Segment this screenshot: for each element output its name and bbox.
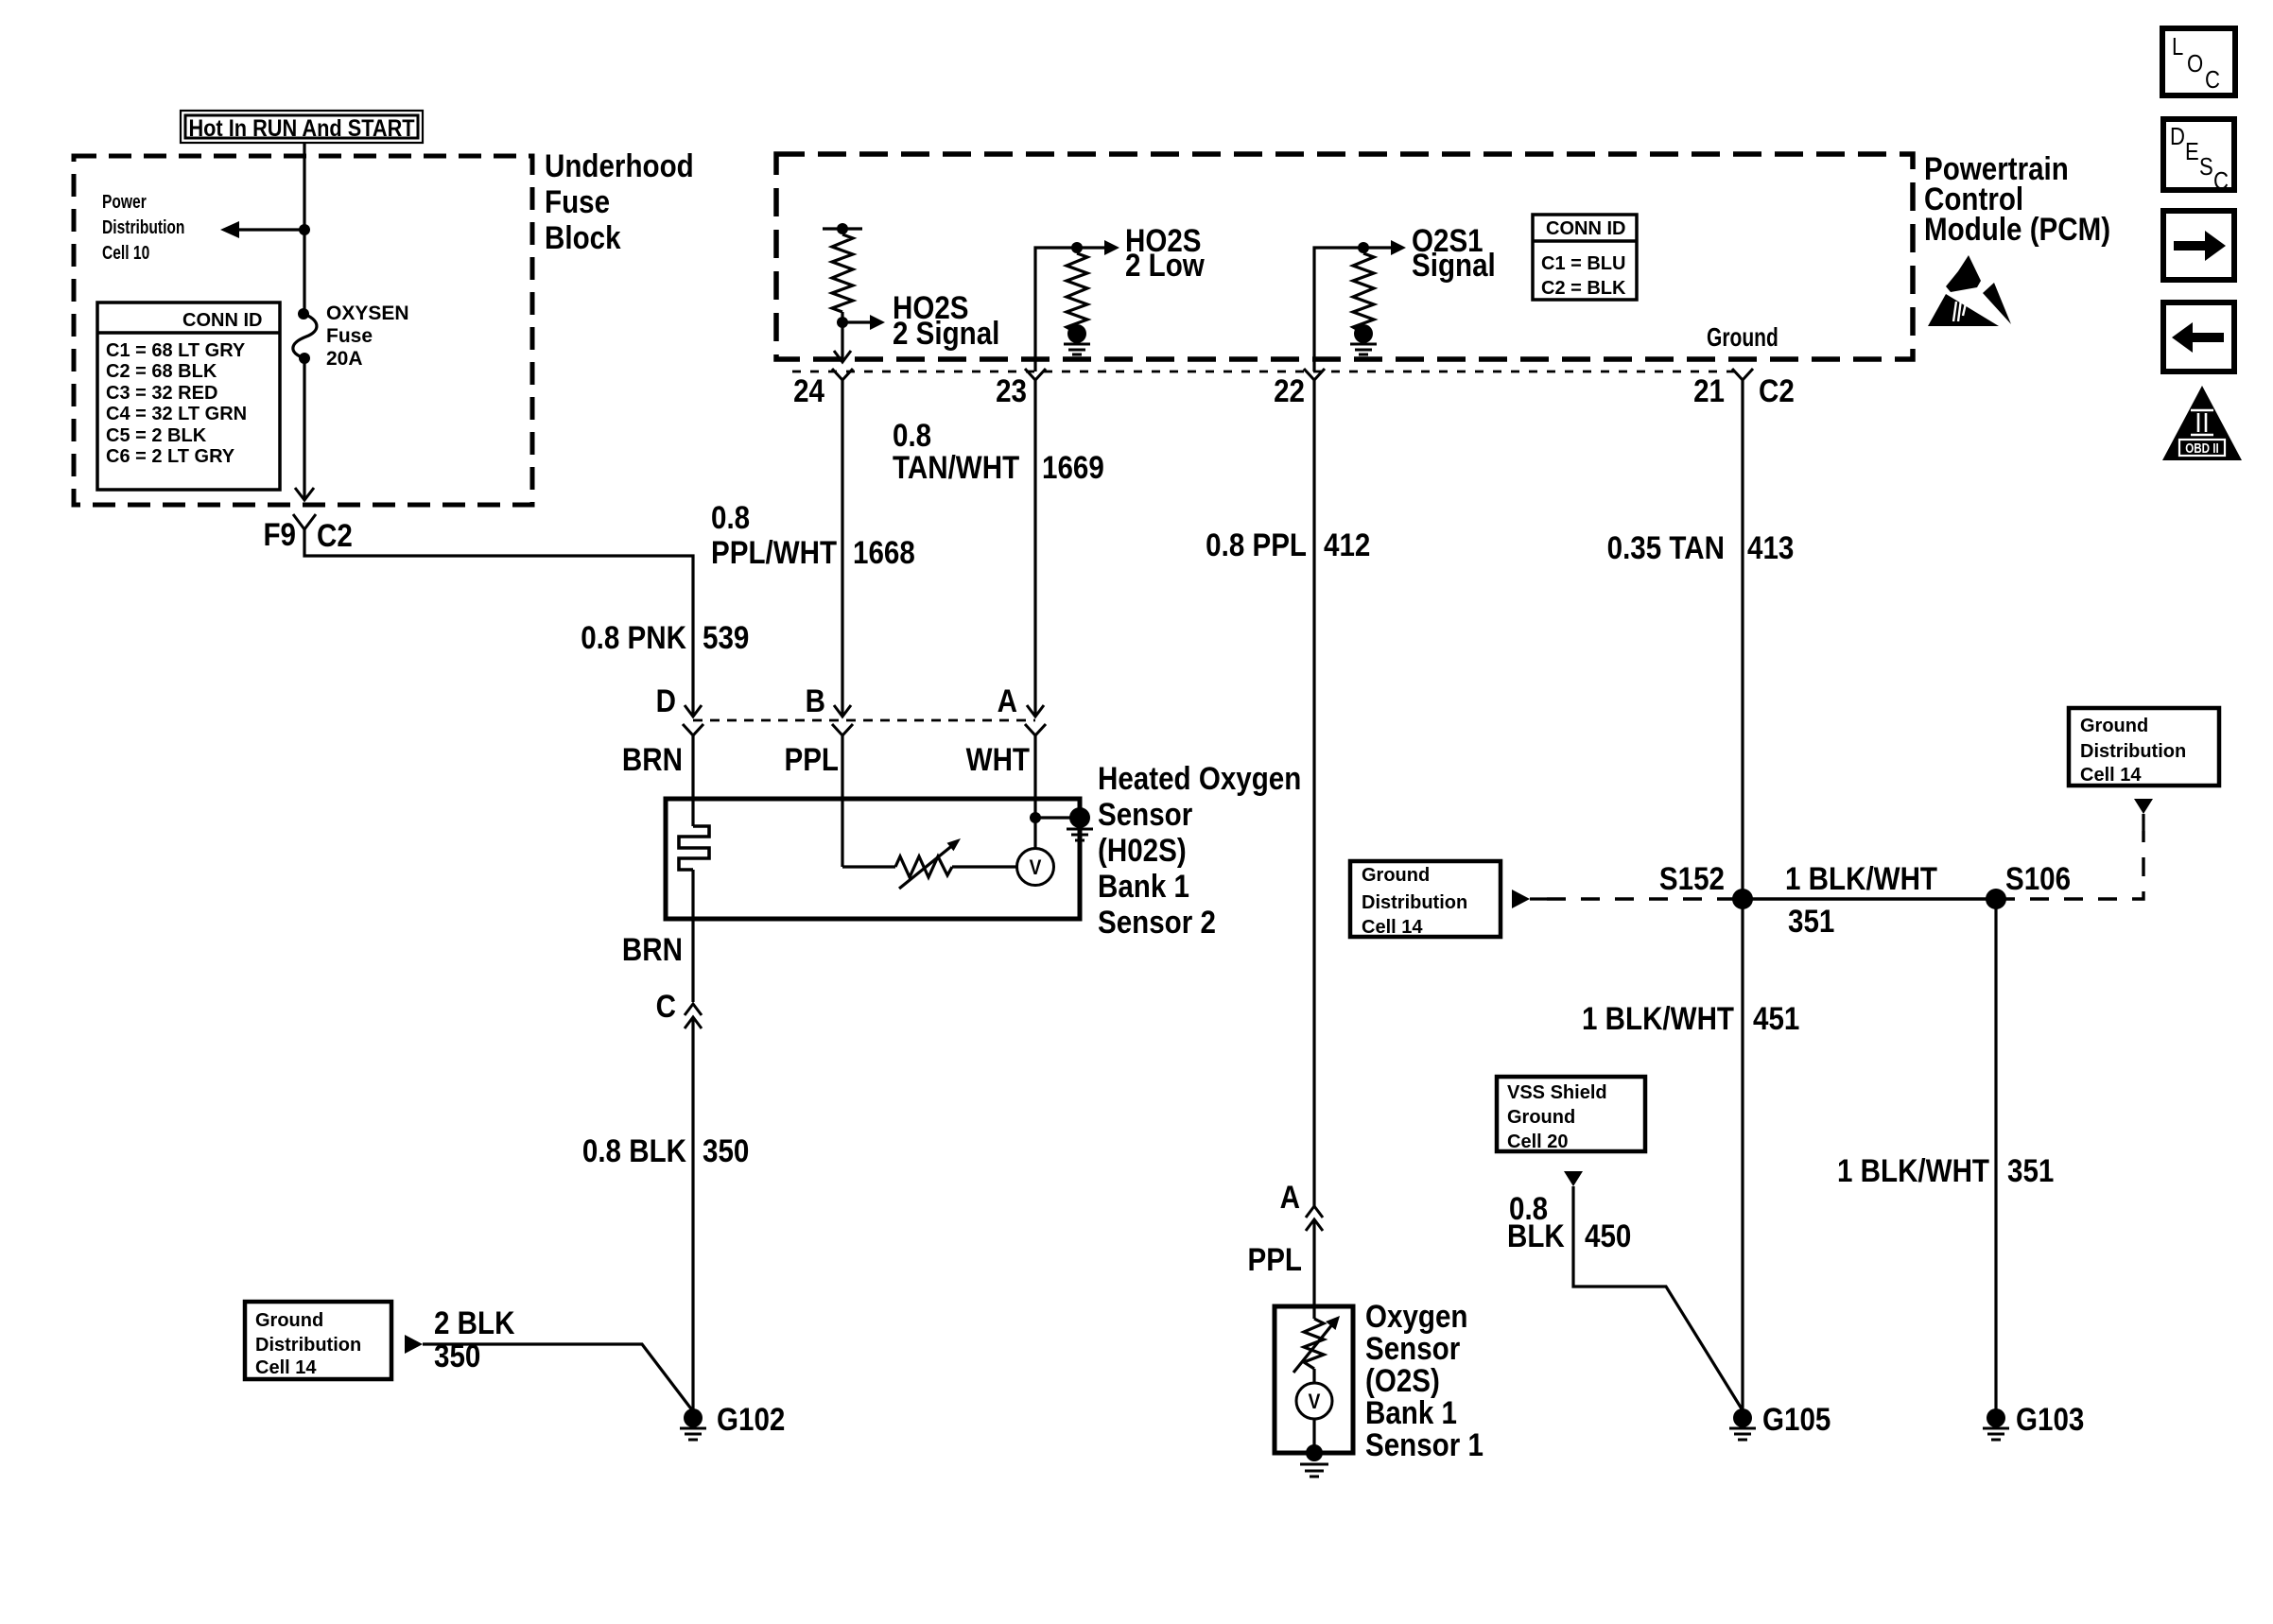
arrow to wire (top right)	[2134, 799, 2153, 814]
VSS shield ground box	[1497, 1077, 1645, 1152]
wire pin 22 to O2S (0.8 PPL 412)	[1312, 379, 1315, 1206]
ground (PCM internal, pin 22 resistor)	[1350, 324, 1377, 354]
svg-text:Distribution: Distribution	[102, 216, 184, 237]
resistor HO2S 2 Low (pin 23)	[1035, 222, 1205, 371]
wire S106 to G103 (1 BLK/WHT 351)	[1994, 899, 1997, 1410]
svg-text:G102: G102	[717, 1401, 785, 1437]
svg-text:1 BLK/WHT: 1 BLK/WHT	[1785, 860, 1937, 896]
svg-text:Sensor 1: Sensor 1	[1365, 1426, 1484, 1462]
voltmeter V (O2S)	[1296, 1369, 1332, 1453]
svg-text:G103: G103	[2016, 1401, 2084, 1437]
svg-text:CONN ID: CONN ID	[1546, 218, 1625, 239]
wire from Hot In RUN And START down through fuse block	[303, 143, 305, 312]
svg-text:Ground: Ground	[1362, 865, 1430, 886]
svg-text:O: O	[2187, 50, 2203, 78]
svg-text:Ground: Ground	[255, 1310, 323, 1331]
svg-text:Ground: Ground	[2080, 716, 2148, 736]
svg-text:(H02S): (H02S)	[1098, 832, 1187, 868]
ground distribution box (middle)	[1350, 861, 1501, 938]
svg-text:412: 412	[1324, 527, 1370, 562]
icon DESC	[2163, 119, 2234, 195]
variable resistor (O2S)	[1293, 1316, 1340, 1373]
label Heated Oxygen Sensor (H02S) Bank 1 Sensor 2	[1098, 760, 1301, 940]
wire VSS shield to G105 (0.8 BLK 450)	[1573, 1186, 1743, 1410]
svg-text:0.8 BLK: 0.8 BLK	[582, 1132, 686, 1168]
svg-text:413: 413	[1747, 529, 1794, 565]
svg-text:A: A	[1280, 1179, 1300, 1215]
resistor HO2S 2 Signal (pin 24)	[823, 223, 999, 351]
svg-text:Distribution: Distribution	[2080, 741, 2186, 762]
svg-text:PPL: PPL	[784, 741, 839, 777]
svg-text:450: 450	[1585, 1218, 1631, 1253]
svg-text:2 Signal: 2 Signal	[893, 315, 999, 351]
powertrain control module dashed box	[776, 154, 1913, 359]
voltmeter V (HO2S)	[1017, 849, 1054, 886]
svg-text:C2: C2	[317, 517, 353, 553]
arrow from ground distribution (middle)	[1512, 890, 1530, 908]
svg-text:Sensor: Sensor	[1098, 796, 1192, 832]
svg-text:Ground: Ground	[1707, 323, 1778, 353]
wire dashed to S152	[1530, 897, 1547, 900]
svg-text:A: A	[998, 682, 1017, 718]
svg-text:Module (PCM): Module (PCM)	[1924, 211, 2110, 247]
svg-text:BRN: BRN	[622, 741, 683, 777]
svg-text:D: D	[656, 682, 676, 718]
svg-text:PPL/WHT: PPL/WHT	[711, 534, 838, 570]
svg-text:C1 = 68 LT GRY: C1 = 68 LT GRY	[106, 340, 246, 361]
ground (HO2S case)	[1067, 807, 1093, 840]
svg-text:V: V	[1309, 1391, 1321, 1414]
svg-text:E: E	[2185, 138, 2199, 165]
wire S152 to S106 (1 BLK/WHT 351)	[1743, 897, 1996, 900]
svg-text:D: D	[2170, 123, 2185, 150]
wire B into HO2S	[841, 735, 843, 867]
svg-text:S: S	[2199, 153, 2213, 181]
svg-text:BRN: BRN	[622, 931, 683, 967]
svg-text:0.8: 0.8	[893, 417, 931, 453]
svg-text:350: 350	[703, 1132, 749, 1168]
ground G105	[1729, 1408, 1756, 1440]
wire D to HO2S heater	[691, 735, 694, 826]
svg-text:S152: S152	[1659, 860, 1725, 896]
svg-text:539: 539	[703, 619, 749, 655]
connector table CONN ID (PCM)	[1533, 215, 1637, 300]
wire dashed S106 to ground distribution (top right)	[1996, 831, 2143, 899]
svg-text:0.35 TAN: 0.35 TAN	[1607, 529, 1725, 565]
svg-text:Cell 10: Cell 10	[102, 242, 149, 263]
wire S152 to G105 (1 BLK/WHT 451)	[1741, 899, 1744, 1410]
node S106	[1986, 889, 2006, 909]
svg-text:350: 350	[434, 1338, 480, 1373]
connector pin 23	[1025, 369, 1046, 402]
svg-text:(O2S): (O2S)	[1365, 1362, 1440, 1398]
arrow chevron pin 24	[834, 351, 851, 362]
ESD symbol	[1928, 255, 2011, 326]
component box Heated Oxygen Sensor	[666, 799, 1080, 919]
svg-text:VSS Shield: VSS Shield	[1507, 1082, 1607, 1103]
ground (O2S case)	[1300, 1444, 1328, 1477]
arrow to power distribution	[220, 221, 239, 238]
wire A connector to O2S box	[1312, 1219, 1315, 1319]
node junction power distribution	[299, 224, 310, 235]
svg-text:0.8: 0.8	[711, 499, 750, 535]
arrow from VSS shield ground	[1564, 1171, 1583, 1186]
wire power distribution branch	[234, 228, 304, 231]
svg-text:Cell 14: Cell 14	[1362, 917, 1423, 938]
connector A (in-line, O2S)	[1306, 1206, 1323, 1231]
svg-text:Hot In RUN And START: Hot In RUN And START	[188, 115, 415, 142]
wire pin 24 inside PCM	[841, 322, 843, 360]
svg-text:Heated Oxygen: Heated Oxygen	[1098, 760, 1301, 796]
svg-text:Ground: Ground	[1507, 1107, 1575, 1128]
connector pin A	[1025, 705, 1046, 735]
variable resistor (HO2S heater sense)	[895, 838, 1017, 889]
wire pin 23 to A (0.8 TAN/WHT 1669)	[1033, 379, 1036, 716]
svg-text:2 BLK: 2 BLK	[434, 1304, 514, 1340]
svg-text:451: 451	[1753, 1000, 1799, 1036]
svg-text:1 BLK/WHT: 1 BLK/WHT	[1837, 1152, 1989, 1188]
heater element (HO2S)	[679, 826, 709, 870]
ground G102	[680, 1408, 706, 1440]
connector table CONN ID (fuse block)	[97, 302, 280, 490]
connector line C2 (thin dashed)	[792, 371, 1743, 373]
svg-text:Fuse: Fuse	[545, 183, 610, 219]
ground (PCM internal, pin 23 resistor)	[1064, 324, 1090, 354]
connector C (in-line)	[685, 1004, 702, 1028]
svg-text:22: 22	[1274, 372, 1305, 408]
svg-text:Fuse: Fuse	[326, 325, 373, 347]
svg-text:Sensor 2: Sensor 2	[1098, 904, 1216, 940]
component box Oxygen Sensor	[1275, 1306, 1353, 1453]
svg-text:23: 23	[996, 372, 1027, 408]
wire pin 21 to S152 (0.35 TAN 413)	[1741, 379, 1744, 899]
wire pin 24 to B (0.8 PPL/WHT 1668)	[841, 379, 843, 716]
label Powertrain Control Module (PCM)	[1924, 150, 2110, 247]
wire F9 to D pin (0.8 PNK 539)	[304, 529, 693, 716]
wire B to variable resistor	[842, 865, 895, 868]
icon OBD II triangle	[2162, 386, 2242, 460]
wire C to G102 (0.8 BLK 350)	[691, 1017, 694, 1410]
icon left arrow	[2163, 302, 2234, 371]
connector pin 21	[1732, 369, 1753, 402]
svg-text:Distribution: Distribution	[255, 1335, 361, 1356]
svg-text:Cell 20: Cell 20	[1507, 1132, 1568, 1152]
icon LOC	[2162, 28, 2235, 95]
svg-text:351: 351	[2007, 1152, 2054, 1188]
svg-text:Power: Power	[102, 191, 147, 212]
svg-text:C4 = 32 LT GRN: C4 = 32 LT GRN	[106, 404, 247, 424]
svg-text:C6 = 2 LT GRY: C6 = 2 LT GRY	[106, 446, 235, 467]
svg-text:BLK: BLK	[1507, 1218, 1565, 1253]
svg-text:C2: C2	[1759, 372, 1795, 408]
svg-text:TAN/WHT: TAN/WHT	[893, 449, 1020, 485]
svg-text:C3 = 32 RED: C3 = 32 RED	[106, 383, 217, 404]
svg-text:351: 351	[1788, 903, 1834, 939]
svg-text:F9: F9	[263, 516, 296, 552]
svg-text:PPL: PPL	[1247, 1241, 1302, 1277]
svg-text:OXYSEN: OXYSEN	[326, 302, 409, 324]
connector line D B A (thin dashed)	[693, 719, 1035, 722]
connector pin 24	[832, 369, 853, 402]
svg-text:Signal: Signal	[1412, 247, 1496, 283]
svg-text:Bank 1: Bank 1	[1098, 868, 1189, 904]
label 0.8 BLK (VSS)	[1507, 1190, 1565, 1253]
resistor O2S1 Signal (pin 22)	[1314, 222, 1496, 371]
svg-text:WHT: WHT	[966, 741, 1031, 777]
label Power Distribution Cell 10	[102, 191, 184, 263]
svg-text:Underhood: Underhood	[545, 147, 694, 183]
node junction A wire	[1030, 812, 1041, 823]
wire junction to case ground	[1035, 816, 1074, 819]
ground distribution box (top right)	[2069, 708, 2219, 786]
label Underhood Fuse Block	[545, 147, 694, 255]
svg-text:1669: 1669	[1042, 449, 1104, 485]
svg-text:Distribution: Distribution	[1362, 892, 1467, 913]
svg-text:1 BLK/WHT: 1 BLK/WHT	[1582, 1000, 1734, 1036]
connector pin 22	[1304, 369, 1325, 402]
wire heater to box bottom	[691, 870, 694, 1002]
svg-text:Cell 14: Cell 14	[2080, 765, 2142, 786]
label 0.8 PPL/WHT	[711, 499, 838, 570]
svg-text:C2 = BLK: C2 = BLK	[1541, 278, 1626, 299]
node S152	[1732, 889, 1753, 909]
svg-text:C: C	[656, 988, 676, 1024]
wire A into HO2S	[1033, 735, 1036, 849]
svg-text:Oxygen: Oxygen	[1365, 1298, 1467, 1334]
ground distribution box (bottom left)	[245, 1302, 391, 1379]
ground G103	[1983, 1408, 2009, 1440]
svg-text:0.8 PNK: 0.8 PNK	[581, 619, 686, 655]
connector pin D	[683, 705, 703, 735]
svg-text:V: V	[1030, 856, 1042, 880]
svg-text:B: B	[806, 682, 825, 718]
svg-text:21: 21	[1693, 372, 1725, 408]
svg-text:Cell 14: Cell 14	[255, 1357, 317, 1378]
svg-text:Block: Block	[545, 219, 621, 255]
arrow from ground distribution (bottom left)	[405, 1335, 423, 1354]
svg-text:CONN ID: CONN ID	[182, 310, 262, 331]
connector F9 C2 female	[293, 514, 316, 529]
icon right arrow	[2163, 211, 2234, 280]
label Oxygen Sensor (O2S) Bank 1 Sensor 1	[1365, 1298, 1484, 1462]
svg-text:OBD II: OBD II	[2185, 441, 2218, 457]
svg-text:1668: 1668	[853, 534, 915, 570]
svg-text:2 Low: 2 Low	[1125, 247, 1205, 283]
svg-text:C: C	[2205, 66, 2220, 94]
label box Hot In RUN And START	[181, 111, 423, 143]
connector pin B	[832, 705, 853, 735]
svg-text:Bank 1: Bank 1	[1365, 1394, 1457, 1430]
svg-text:Sensor: Sensor	[1365, 1330, 1460, 1366]
svg-text:C1 = BLU: C1 = BLU	[1541, 253, 1625, 274]
svg-text:20A: 20A	[326, 348, 363, 370]
svg-text:0.8 PPL: 0.8 PPL	[1206, 527, 1307, 562]
svg-text:C2 = 68 BLK: C2 = 68 BLK	[106, 361, 217, 382]
svg-text:L: L	[2172, 33, 2183, 60]
svg-text:G105: G105	[1762, 1401, 1831, 1437]
underhood fuse block dashed box	[74, 156, 532, 505]
svg-text:C5 = 2 BLK: C5 = 2 BLK	[106, 425, 207, 446]
label 0.8 TAN/WHT	[893, 417, 1020, 485]
wire fuse to F9	[303, 358, 305, 498]
svg-text:S106: S106	[2005, 860, 2071, 896]
svg-text:24: 24	[793, 372, 824, 408]
fuse OXYSEN 20A	[293, 302, 409, 370]
wire 2 BLK 350 to G102	[423, 1344, 693, 1411]
svg-text:C: C	[2213, 167, 2229, 195]
arrow chevron at fuse block exit	[295, 488, 314, 500]
